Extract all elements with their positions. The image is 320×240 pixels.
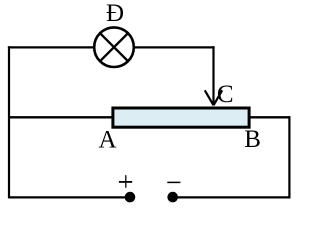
wire: top-left horizontal from left rail to lamp [8, 46, 94, 48]
svg-text:Đ: Đ [106, 0, 124, 27]
label - (negative polarity) [167, 181, 180, 183]
battery - terminal dot [167, 192, 178, 203]
svg-text:B: B [244, 126, 261, 153]
wiper arrow C: arrowhead [205, 90, 222, 105]
battery + terminal dot [125, 192, 136, 203]
wire: bottom horizontal from - terminal to right rail [172, 196, 291, 198]
rheostat body (resistor track A-B) [113, 108, 249, 127]
wiper arrow C: shaft [212, 46, 214, 104]
wire: top horizontal from lamp to top-right corner [134, 46, 215, 48]
wire: right branch from rheostat terminal B to right rail [249, 116, 291, 118]
lamp D: circle with cross [94, 27, 134, 67]
label + (positive polarity) [119, 175, 132, 188]
wire: left branch to rheostat terminal A [9, 116, 113, 118]
wire: right vertical rail [288, 116, 290, 198]
svg-text:C: C [217, 81, 234, 108]
wire: bottom horizontal from left rail to + terminal [9, 196, 130, 198]
svg-text:A: A [99, 127, 117, 154]
wire: left vertical rail [8, 46, 10, 198]
